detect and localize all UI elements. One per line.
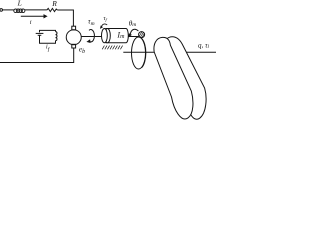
svg-text:τm: τm: [88, 17, 95, 28]
svg-text:L: L: [17, 0, 22, 8]
svg-text:τf: τf: [103, 16, 107, 22]
svg-text:R: R: [51, 0, 57, 8]
svg-text:q, τl: q, τl: [198, 41, 210, 50]
svg-text:if: if: [46, 44, 51, 53]
svg-text:eb: eb: [79, 44, 85, 55]
svg-text:θm: θm: [129, 19, 137, 28]
svg-text:i: i: [30, 19, 32, 26]
